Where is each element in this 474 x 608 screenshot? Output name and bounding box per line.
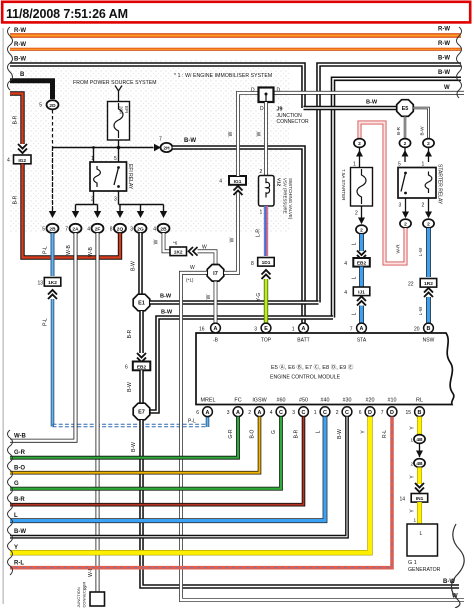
starter relay box xyxy=(398,168,436,199)
wire B-W EB2 to E7 xyxy=(139,370,144,403)
svg-text:2H: 2H xyxy=(163,146,170,152)
relay EFI coil xyxy=(94,166,101,187)
svg-text:Y-G: Y-G xyxy=(256,293,262,302)
chevron above IN1 xyxy=(415,483,424,492)
svg-text:16: 16 xyxy=(199,327,205,333)
svg-text:B-W: B-W xyxy=(131,442,137,452)
svg-text:B-R: B-R xyxy=(13,115,19,124)
svg-text:MREL: MREL xyxy=(201,398,216,404)
octagon I7 xyxy=(207,265,224,282)
svg-text:Y: Y xyxy=(14,545,18,551)
wire Y from RL to generator xyxy=(417,417,422,435)
arrow below oval xyxy=(356,150,363,157)
chevron into IG2 xyxy=(18,144,27,153)
svg-text:3: 3 xyxy=(399,203,402,209)
wire Y from 20 to left edge xyxy=(10,417,370,553)
wire B-O from IGSW to left edge xyxy=(10,417,260,473)
svg-text:E7: E7 xyxy=(138,410,145,416)
generator G1 box xyxy=(407,524,438,556)
svg-text:2: 2 xyxy=(358,141,361,147)
svg-text:1: 1 xyxy=(353,162,356,168)
svg-text:J9: J9 xyxy=(277,107,283,113)
torn edge marks left top xyxy=(8,27,13,90)
svg-text:W: W xyxy=(228,131,234,136)
svg-text:CONNECTOR: CONNECTOR xyxy=(82,582,87,608)
wire L from 40 to left edge xyxy=(10,417,325,521)
connector oval left above relay xyxy=(399,139,410,148)
svg-text:A: A xyxy=(302,326,306,332)
svg-text:* 1 : W/ ENGINE IMMOBILISER SY: * 1 : W/ ENGINE IMMOBILISER SYSTEM xyxy=(174,73,272,79)
connector oval right above relay xyxy=(423,139,434,148)
svg-text:2D: 2D xyxy=(49,103,56,109)
svg-text:4: 4 xyxy=(219,179,222,185)
svg-text:3: 3 xyxy=(254,327,257,333)
chevron right of 1K2 xyxy=(189,247,198,256)
chevron below 1D1 xyxy=(262,270,271,279)
wire W I7 bottom to ECM -B xyxy=(214,282,218,324)
svg-text:2A: 2A xyxy=(72,226,79,232)
svg-text:L: L xyxy=(420,531,423,537)
svg-text:D: D xyxy=(251,88,255,94)
chevron below IG1 xyxy=(234,186,243,195)
wire B-W E7 down to bottom out xyxy=(142,420,460,587)
wire R-L from 10 to left edge xyxy=(10,417,392,568)
svg-text:GENERATOR: GENERATOR xyxy=(408,567,441,573)
svg-text:EFI RELAY: EFI RELAY xyxy=(127,164,133,190)
svg-text:R-W: R-W xyxy=(14,42,26,48)
svg-text:B-W: B-W xyxy=(127,382,133,392)
wire relay pin2 branch xyxy=(76,191,98,211)
svg-text:SWITCHING VALVE): SWITCHING VALVE) xyxy=(288,178,293,220)
wire P-L continue to MREL xyxy=(51,299,55,427)
wire B-W E1 right to up-right corner xyxy=(150,300,319,305)
svg-text:8: 8 xyxy=(110,227,113,233)
svg-text:14: 14 xyxy=(399,497,405,503)
chevron above EB2 xyxy=(137,353,146,362)
svg-text:B-W: B-W xyxy=(131,261,137,271)
svg-text:R-L: R-L xyxy=(382,430,388,438)
svg-text:2B: 2B xyxy=(49,226,56,232)
wire B-W from 2H to BATT column xyxy=(173,148,304,324)
svg-text:2: 2 xyxy=(411,462,414,467)
svg-text:G: G xyxy=(14,481,19,487)
svg-text:6: 6 xyxy=(196,410,199,416)
svg-text:VSV (PRESSURE: VSV (PRESSURE xyxy=(283,178,288,214)
svg-text:3: 3 xyxy=(292,410,295,416)
wire L blue fuse oval to EB2 xyxy=(359,234,364,251)
wire B-W from E7 right up and out xyxy=(149,318,333,412)
svg-text:1D1: 1D1 xyxy=(262,260,271,266)
svg-text:RL: RL xyxy=(416,398,423,404)
svg-text:B-W: B-W xyxy=(14,529,26,535)
svg-text:W-B: W-B xyxy=(14,434,27,440)
svg-text:22: 22 xyxy=(408,282,414,288)
wire W I7 left down to bottom out xyxy=(181,273,464,600)
svg-text:W: W xyxy=(202,245,207,251)
relay EFI box xyxy=(90,162,127,191)
svg-text:1: 1 xyxy=(314,410,317,416)
svg-text:1R2: 1R2 xyxy=(424,281,433,287)
svg-text:B: B xyxy=(427,326,431,332)
wire P-L from 2B to MREL xyxy=(51,233,55,276)
wire bus y147 xyxy=(53,147,154,149)
svg-text:20: 20 xyxy=(414,327,420,333)
wire Y-G to ECM TOP xyxy=(264,279,268,323)
svg-text:IJ1: IJ1 xyxy=(358,290,365,296)
svg-text:B-W: B-W xyxy=(337,429,343,439)
svg-text:L-W: L-W xyxy=(418,306,423,315)
svg-text:15: 15 xyxy=(405,410,411,416)
svg-text:W: W xyxy=(190,265,195,271)
wire W-B from 2F to junction connector xyxy=(96,233,100,592)
svg-text:B-W: B-W xyxy=(438,56,450,62)
svg-text:B-W: B-W xyxy=(420,126,425,136)
wire W from 1K2 to I7 octagon xyxy=(198,251,216,264)
svg-text:13: 13 xyxy=(38,281,44,287)
svg-text:4: 4 xyxy=(344,261,347,267)
svg-text:BATT: BATT xyxy=(297,338,309,344)
svg-text:7: 7 xyxy=(381,410,384,416)
relay EFI switch xyxy=(117,166,120,169)
svg-text:4: 4 xyxy=(344,290,347,296)
svg-text:W-R: W-R xyxy=(396,244,401,254)
svg-text:#40: #40 xyxy=(321,398,330,404)
svg-text:2: 2 xyxy=(427,222,430,228)
wire G from 60 to left edge xyxy=(10,417,281,489)
svg-text:2: 2 xyxy=(260,169,263,175)
wire L-W to NSW xyxy=(426,297,431,323)
svg-text:A: A xyxy=(258,410,262,416)
wire W top right thin xyxy=(273,91,464,95)
wire B-R from 50 to left edge xyxy=(10,417,304,505)
svg-text:R-W: R-W xyxy=(438,27,450,33)
svg-text:2B: 2B xyxy=(160,226,167,232)
svg-text:2G: 2G xyxy=(137,226,144,232)
wire B-R from E1 down xyxy=(139,311,144,353)
svg-text:#10: #10 xyxy=(388,398,397,404)
svg-text:A: A xyxy=(214,326,218,332)
svg-text:#30: #30 xyxy=(343,398,352,404)
wire W J9 bottom to VSV xyxy=(264,102,268,175)
wire B-R red IG2 down to 2Q xyxy=(23,164,121,258)
svg-text:(*1): (*1) xyxy=(186,278,194,283)
svg-text:STA: STA xyxy=(357,338,367,344)
svg-text:L-W: L-W xyxy=(418,247,423,256)
svg-text:5: 5 xyxy=(39,103,42,109)
svg-text:4B: 4B xyxy=(416,461,423,467)
svg-text:A: A xyxy=(360,326,364,332)
wire 2B feed xyxy=(52,148,54,212)
svg-text:1: 1 xyxy=(292,327,295,333)
wire fuse bottom to relay pin5 xyxy=(118,140,120,162)
svg-text:I7: I7 xyxy=(213,271,218,277)
wire Y oval to IN1 xyxy=(417,467,422,484)
svg-text:B-W: B-W xyxy=(438,70,450,76)
svg-text:W-B: W-B xyxy=(88,247,94,257)
svg-text:2: 2 xyxy=(360,228,363,234)
svg-text:1: 1 xyxy=(91,156,94,162)
wire W IG1 up to J9 left xyxy=(238,93,258,176)
wire to relay pin1 xyxy=(93,148,95,163)
svg-text:L: L xyxy=(352,242,358,245)
torn edge marks left bottom xyxy=(8,430,13,575)
svg-text:B-R: B-R xyxy=(13,195,19,204)
svg-text:2: 2 xyxy=(248,410,251,416)
wire L blue EB2 to IJ1 xyxy=(359,267,364,287)
octagon E7 xyxy=(133,403,150,420)
wire R-W top 1 xyxy=(10,33,461,38)
wire G-R from FC to left edge xyxy=(10,417,238,458)
svg-text:EB2: EB2 xyxy=(357,261,367,267)
svg-text:#20: #20 xyxy=(366,398,375,404)
svg-text:L-R: L-R xyxy=(256,229,262,237)
svg-text:5: 5 xyxy=(398,162,401,168)
svg-text:IG1: IG1 xyxy=(234,179,242,185)
svg-text:2: 2 xyxy=(336,410,339,416)
svg-text:1: 1 xyxy=(422,162,425,168)
svg-text:*6: *6 xyxy=(173,241,178,246)
svg-text:G 1: G 1 xyxy=(408,560,417,566)
svg-text:8: 8 xyxy=(251,261,254,267)
svg-text:4: 4 xyxy=(7,158,10,164)
wire B-W top right out xyxy=(319,65,462,303)
svg-text:JUNCTION: JUNCTION xyxy=(76,587,81,607)
svg-text:E: E xyxy=(264,326,268,332)
svg-text:1: 1 xyxy=(411,438,414,443)
wire B-W from 30 to left edge xyxy=(10,417,347,537)
svg-text:3: 3 xyxy=(114,197,117,203)
arrows below ovals into relay xyxy=(402,150,409,157)
svg-text:B-R: B-R xyxy=(14,497,25,503)
svg-text:W: W xyxy=(206,294,212,299)
svg-text:C: C xyxy=(323,410,327,416)
wire dash-dot 2D to 2B xyxy=(52,110,54,215)
wire R-W top 2 xyxy=(10,48,461,51)
octagon E1 xyxy=(133,294,150,311)
svg-text:B-W: B-W xyxy=(161,310,173,316)
wire B-W second right out xyxy=(333,79,461,318)
svg-text:4B: 4B xyxy=(416,437,423,443)
svg-text:L: L xyxy=(316,430,322,433)
svg-text:-B: -B xyxy=(213,338,219,344)
wire Y IN1 to generator xyxy=(417,502,422,524)
svg-text:#60: #60 xyxy=(277,398,286,404)
wire W-R highlighted loop xyxy=(360,123,406,264)
svg-text:7: 7 xyxy=(350,327,353,333)
svg-text:B: B xyxy=(20,72,25,78)
svg-text:D: D xyxy=(390,410,394,416)
wire B-W from 2G to E1 xyxy=(138,233,143,294)
svg-text:B-O: B-O xyxy=(14,466,25,472)
junction connector J9 xyxy=(259,88,274,103)
svg-text:5: 5 xyxy=(114,156,117,162)
svg-text:W: W xyxy=(257,131,263,136)
feed arrow above fuse xyxy=(118,91,120,102)
svg-text:B-O: B-O xyxy=(250,429,256,438)
svg-text:1: 1 xyxy=(414,518,417,523)
svg-text:6: 6 xyxy=(125,365,128,371)
svg-text:C: C xyxy=(279,410,283,416)
svg-text:20A: 20A xyxy=(119,106,124,115)
wire W from 2B-right oval down to 1K2 xyxy=(164,233,170,251)
chevron above EB2 right xyxy=(357,251,366,260)
svg-text:R-W: R-W xyxy=(438,41,450,47)
svg-text:G-R: G-R xyxy=(14,450,26,456)
halftone scan texture xyxy=(10,60,290,233)
svg-text:2: 2 xyxy=(404,141,407,147)
svg-text:B-W: B-W xyxy=(366,100,378,106)
svg-text:A: A xyxy=(206,410,210,416)
svg-text:STARTER RELAY: STARTER RELAY xyxy=(437,164,443,205)
svg-text:6: 6 xyxy=(359,410,362,416)
svg-text:TOP: TOP xyxy=(261,338,272,344)
ECM engine control module box xyxy=(196,333,454,405)
svg-text:V12: V12 xyxy=(277,178,282,187)
svg-text:E5 Ⓐ, E6 Ⓑ, E7 Ⓒ, E8 Ⓓ, E9 Ⓔ: E5 Ⓐ, E6 Ⓑ, E7 Ⓒ, E8 Ⓓ, E9 Ⓔ xyxy=(271,363,354,371)
connector oval above starter fuse xyxy=(354,139,365,148)
svg-text:L: L xyxy=(352,312,358,315)
svg-text:P-L: P-L xyxy=(43,318,49,326)
svg-text:B-R: B-R xyxy=(127,329,133,338)
svg-text:IGSW: IGSW xyxy=(252,398,267,404)
svg-text:E5: E5 xyxy=(402,106,409,112)
svg-text:B-R: B-R xyxy=(396,126,401,135)
svg-text:R-W: R-W xyxy=(14,28,26,34)
svg-text:2: 2 xyxy=(404,222,407,228)
svg-text:11/8/2008 7:51:26 AM: 11/8/2008 7:51:26 AM xyxy=(6,7,128,21)
svg-text:4: 4 xyxy=(270,410,273,416)
svg-text:D: D xyxy=(277,88,281,94)
svg-text:P-L: P-L xyxy=(43,246,49,254)
svg-text:W: W xyxy=(230,237,236,242)
arrows into oval row xyxy=(49,211,56,218)
svg-text:P-L: P-L xyxy=(188,419,196,425)
wire L-W from relay to NSW chain xyxy=(426,228,431,277)
svg-text:2: 2 xyxy=(427,141,430,147)
svg-text:ENGINE CONTROL MODULE: ENGINE CONTROL MODULE xyxy=(270,375,341,381)
svg-text:D: D xyxy=(368,410,372,416)
svg-text:1K2: 1K2 xyxy=(174,250,183,256)
svg-text:EB2: EB2 xyxy=(137,364,147,370)
wire relay pin3 branch xyxy=(119,191,164,211)
svg-text:4: 4 xyxy=(153,227,156,233)
torn edge marks top right xyxy=(457,27,462,98)
svg-text:IN1: IN1 xyxy=(416,496,424,502)
svg-text:IG2: IG2 xyxy=(18,158,26,164)
svg-text:1: 1 xyxy=(260,210,263,216)
wire B-R red from left edge via IG2 to 2Q xyxy=(10,94,23,145)
fuse 7.5A STARTER xyxy=(351,168,373,207)
svg-text:W-B: W-B xyxy=(66,245,72,255)
svg-text:B: B xyxy=(418,410,422,416)
svg-text:7: 7 xyxy=(65,227,68,233)
svg-text:2Q: 2Q xyxy=(117,226,124,232)
octagon E5 xyxy=(397,100,414,117)
svg-text:B-W: B-W xyxy=(184,138,196,144)
svg-text:E1: E1 xyxy=(138,301,145,307)
arrows below relay xyxy=(406,198,429,212)
wire E5 to relay drops xyxy=(405,108,429,139)
svg-text:FROM POWER SOURCE SYSTEM: FROM POWER SOURCE SYSTEM xyxy=(73,80,157,86)
arrow between ovals xyxy=(419,443,421,457)
svg-text:L: L xyxy=(14,513,18,519)
wire B-W top left (to BATT column corner) xyxy=(10,65,304,109)
arrow into 2H xyxy=(154,144,161,152)
torn edge marks bottom right xyxy=(451,524,464,608)
svg-text:CONNECTOR: CONNECTOR xyxy=(277,119,310,125)
svg-text:B-W: B-W xyxy=(14,57,26,63)
connector ovals below relay xyxy=(400,219,411,228)
svg-text:FC: FC xyxy=(234,398,241,404)
svg-text:G-R: G-R xyxy=(228,429,234,439)
svg-text:#50: #50 xyxy=(299,398,308,404)
svg-text:3: 3 xyxy=(227,410,230,416)
svg-text:W: W xyxy=(444,85,450,91)
wire W-B from 2A to left edge xyxy=(10,233,76,441)
chevron below IR2 xyxy=(424,288,433,297)
header red border box xyxy=(2,2,470,23)
fuse 20A EFI xyxy=(108,102,130,141)
svg-text:1K2: 1K2 xyxy=(48,280,57,286)
svg-text:B-W: B-W xyxy=(160,294,172,300)
wire L blue IJ1 to STA xyxy=(359,306,364,324)
svg-text:A: A xyxy=(236,410,240,416)
svg-text:G: G xyxy=(271,430,277,434)
svg-text:C: C xyxy=(345,410,349,416)
chevron below IJ1 xyxy=(357,297,366,306)
svg-text:L: L xyxy=(352,276,358,279)
svg-text:7: 7 xyxy=(159,137,162,143)
svg-text:2F: 2F xyxy=(95,226,101,232)
svg-text:5: 5 xyxy=(42,227,45,233)
svg-text:NSW: NSW xyxy=(423,338,435,344)
svg-text:B-R: B-R xyxy=(294,429,300,438)
chevron below 1K2 xyxy=(48,290,57,299)
svg-text:W: W xyxy=(154,239,160,244)
svg-text:EFI: EFI xyxy=(124,106,129,113)
wire W I7 right up to IG1 xyxy=(224,194,238,273)
VSV valve box xyxy=(259,176,275,207)
wire B-W BATT column to E5 xyxy=(304,106,398,111)
svg-text:D: D xyxy=(260,106,264,112)
svg-text:4: 4 xyxy=(87,227,90,233)
svg-text:2: 2 xyxy=(422,203,425,209)
wire B thick left xyxy=(10,81,53,99)
svg-text:3: 3 xyxy=(130,227,133,233)
svg-text:7.5A STARTER: 7.5A STARTER xyxy=(341,169,346,201)
svg-text:R-L: R-L xyxy=(14,561,24,567)
svg-text:C: C xyxy=(302,410,306,416)
svg-text:2: 2 xyxy=(355,211,358,217)
page left edge line xyxy=(2,28,4,604)
